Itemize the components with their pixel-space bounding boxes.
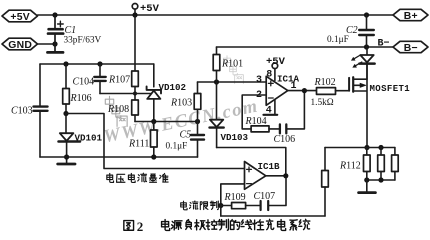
svg-text:GND: GND xyxy=(8,40,32,51)
capacitor C104 xyxy=(94,64,105,94)
node R101/VD103 xyxy=(214,79,219,84)
wire bottom feedback run xyxy=(221,215,325,217)
wire sense bottom xyxy=(367,179,395,181)
node MOSFET source / sense wire xyxy=(364,145,369,150)
svg-text:4: 4 xyxy=(266,106,272,117)
node C1 bottom xyxy=(52,41,57,46)
resistor R112 xyxy=(364,148,371,181)
svg-text:VD103: VD103 xyxy=(221,132,249,143)
svg-text:R103: R103 xyxy=(170,97,192,108)
diode VD103 xyxy=(210,82,224,148)
capacitor C5 xyxy=(191,122,204,158)
wire bottom ground rail xyxy=(40,156,198,158)
diode VD101 xyxy=(59,114,81,158)
GND tag xyxy=(2,38,38,50)
svg-text:VD101: VD101 xyxy=(75,132,103,143)
wire R108 to rail B xyxy=(134,115,136,122)
node rail B / VD102-R111 xyxy=(151,119,156,124)
node VD101/R106 xyxy=(63,111,68,116)
wire IC1A output xyxy=(288,90,317,92)
wire R102 to gate xyxy=(336,90,350,92)
resistor R103 xyxy=(194,82,201,122)
node C2/LED on B- rail xyxy=(364,44,369,49)
wire sense top xyxy=(325,147,395,149)
resistor R109 xyxy=(221,203,261,209)
wire R104 to C106 xyxy=(269,128,280,130)
parallel sense resistor c xyxy=(392,148,399,181)
IC1A pin 4 stub xyxy=(264,100,278,115)
resistor R107 xyxy=(132,71,139,87)
wire R107-R108 junction xyxy=(134,87,136,101)
ground below sense resistors xyxy=(359,180,376,193)
svg-text:MOSFET1: MOSFET1 xyxy=(370,84,411,94)
wire minus node down to feedback run xyxy=(220,206,222,217)
svg-text:VD102: VD102 xyxy=(159,82,187,93)
+5V terminal (top) xyxy=(132,4,138,16)
svg-text:C104: C104 xyxy=(73,76,95,87)
ground below C1 xyxy=(48,44,64,52)
capacitor C107 xyxy=(261,178,286,210)
svg-text:R104: R104 xyxy=(245,116,267,127)
resistor R101 xyxy=(213,47,220,82)
node ground rail / VD101 xyxy=(64,154,69,159)
svg-text:R101: R101 xyxy=(221,59,243,70)
svg-text:R109: R109 xyxy=(224,192,246,203)
node sense top / middle resistor xyxy=(378,145,383,150)
resistor R102 xyxy=(317,88,336,95)
wire IC1B output xyxy=(266,175,286,177)
wire C104 bottom to VD102 xyxy=(100,93,151,95)
resistor R111 xyxy=(151,122,158,158)
node sense bottom / R112 xyxy=(364,177,369,182)
IC1B + input sign xyxy=(247,167,252,172)
svg-text:B+: B+ xyxy=(404,11,418,22)
node IC1A output xyxy=(302,88,307,93)
node rail A / C104 xyxy=(97,61,102,66)
svg-text:+5V: +5V xyxy=(266,56,286,68)
IC1B - input sign xyxy=(247,183,252,185)
svg-text:C107: C107 xyxy=(254,191,276,202)
svg-text:C106: C106 xyxy=(274,134,296,145)
node ground rail / R111 xyxy=(151,154,156,159)
LED emission arrows xyxy=(351,55,361,67)
svg-text:B−: B− xyxy=(378,39,390,50)
svg-text:R108: R108 xyxy=(107,104,129,115)
label 电流限制 (current limit) xyxy=(181,201,219,210)
capacitor C103 xyxy=(34,107,48,157)
caption 图2 电源负极控制的线性充电系统 xyxy=(124,219,310,234)
wire rail B xyxy=(135,121,198,123)
wire VD101 node to reference line xyxy=(66,114,245,169)
svg-text:+5V: +5V xyxy=(10,12,30,23)
svg-text:R107: R107 xyxy=(108,75,130,86)
label 电压电流基准 (voltage/current reference) xyxy=(107,173,168,182)
svg-text:IC1B: IC1B xyxy=(258,161,281,172)
resistor R108 xyxy=(132,100,139,115)
B+ tag xyxy=(393,9,428,20)
wire pin3 (to IC1A +) xyxy=(198,81,267,83)
svg-text:3: 3 xyxy=(256,75,262,86)
node C2 top xyxy=(364,12,369,17)
svg-text:2: 2 xyxy=(137,219,144,234)
node C1 top xyxy=(52,12,57,17)
svg-text:C5: C5 xyxy=(180,130,192,141)
op-amp IC1A xyxy=(266,76,288,105)
feedback resistor (current sense to IC1B) xyxy=(322,148,329,217)
IC1A pin 8 / +5V terminal xyxy=(272,63,278,80)
op-amp IC1B xyxy=(245,162,266,190)
+5V tag xyxy=(2,10,38,22)
wire C106 to output node xyxy=(287,91,305,129)
node rail B / R103-C5 xyxy=(195,119,200,124)
parallel sense resistor b xyxy=(378,148,385,181)
wire +5V drop to R107 xyxy=(134,15,136,71)
watermark www.ECCN.com xyxy=(102,96,260,147)
wire GND tag to C1 xyxy=(38,43,56,45)
capacitor C1 xyxy=(48,15,63,44)
zener VD102 xyxy=(147,64,161,122)
resistor R106 xyxy=(63,64,70,114)
svg-text:8: 8 xyxy=(266,70,272,81)
IC1A - input sign xyxy=(268,97,273,99)
wire C103 branch top xyxy=(39,64,41,106)
node R109 / minus input xyxy=(218,203,223,208)
svg-text:R102: R102 xyxy=(314,77,336,88)
IC1A + input sign xyxy=(268,81,273,86)
LED xyxy=(359,47,374,79)
svg-text:0.1μF: 0.1μF xyxy=(166,142,188,152)
svg-text:1.5kΩ: 1.5kΩ xyxy=(311,98,334,108)
svg-text:0.1μF: 0.1μF xyxy=(327,35,349,45)
svg-text:C1: C1 xyxy=(65,25,77,36)
wire pin2 feedback loop xyxy=(242,95,266,129)
node junction x135 xyxy=(133,92,137,96)
svg-text:R106: R106 xyxy=(70,93,92,104)
svg-text:+5V: +5V xyxy=(140,3,160,15)
wire VD103 to IC1B output xyxy=(217,148,286,176)
wire +5V top rail xyxy=(38,14,394,16)
node IC1B output xyxy=(283,173,288,178)
resistor R104 xyxy=(251,126,269,132)
capacitor C2 xyxy=(359,15,374,47)
B- tag xyxy=(393,41,428,52)
svg-text:B−: B− xyxy=(404,43,418,54)
node sense bottom / middle resistor xyxy=(378,177,383,182)
capacitor C106 xyxy=(280,124,286,133)
svg-text:C103: C103 xyxy=(11,105,33,116)
wire B- rail xyxy=(217,46,394,48)
wire IC1B minus input xyxy=(221,184,245,206)
svg-text:R112: R112 xyxy=(339,161,361,172)
watermark 中电网 (center) xyxy=(105,96,127,126)
node +5V rail x135 xyxy=(132,12,137,17)
ground below VD101 xyxy=(58,157,75,164)
watermark 中电网 (upper right, faint) xyxy=(223,56,243,84)
svg-text:33pF/63V: 33pF/63V xyxy=(64,36,102,46)
svg-text:R111: R111 xyxy=(128,138,149,149)
transistor MOSFET1 xyxy=(349,65,367,148)
node rail A / R106 xyxy=(63,61,68,66)
wire rail A xyxy=(40,63,154,65)
